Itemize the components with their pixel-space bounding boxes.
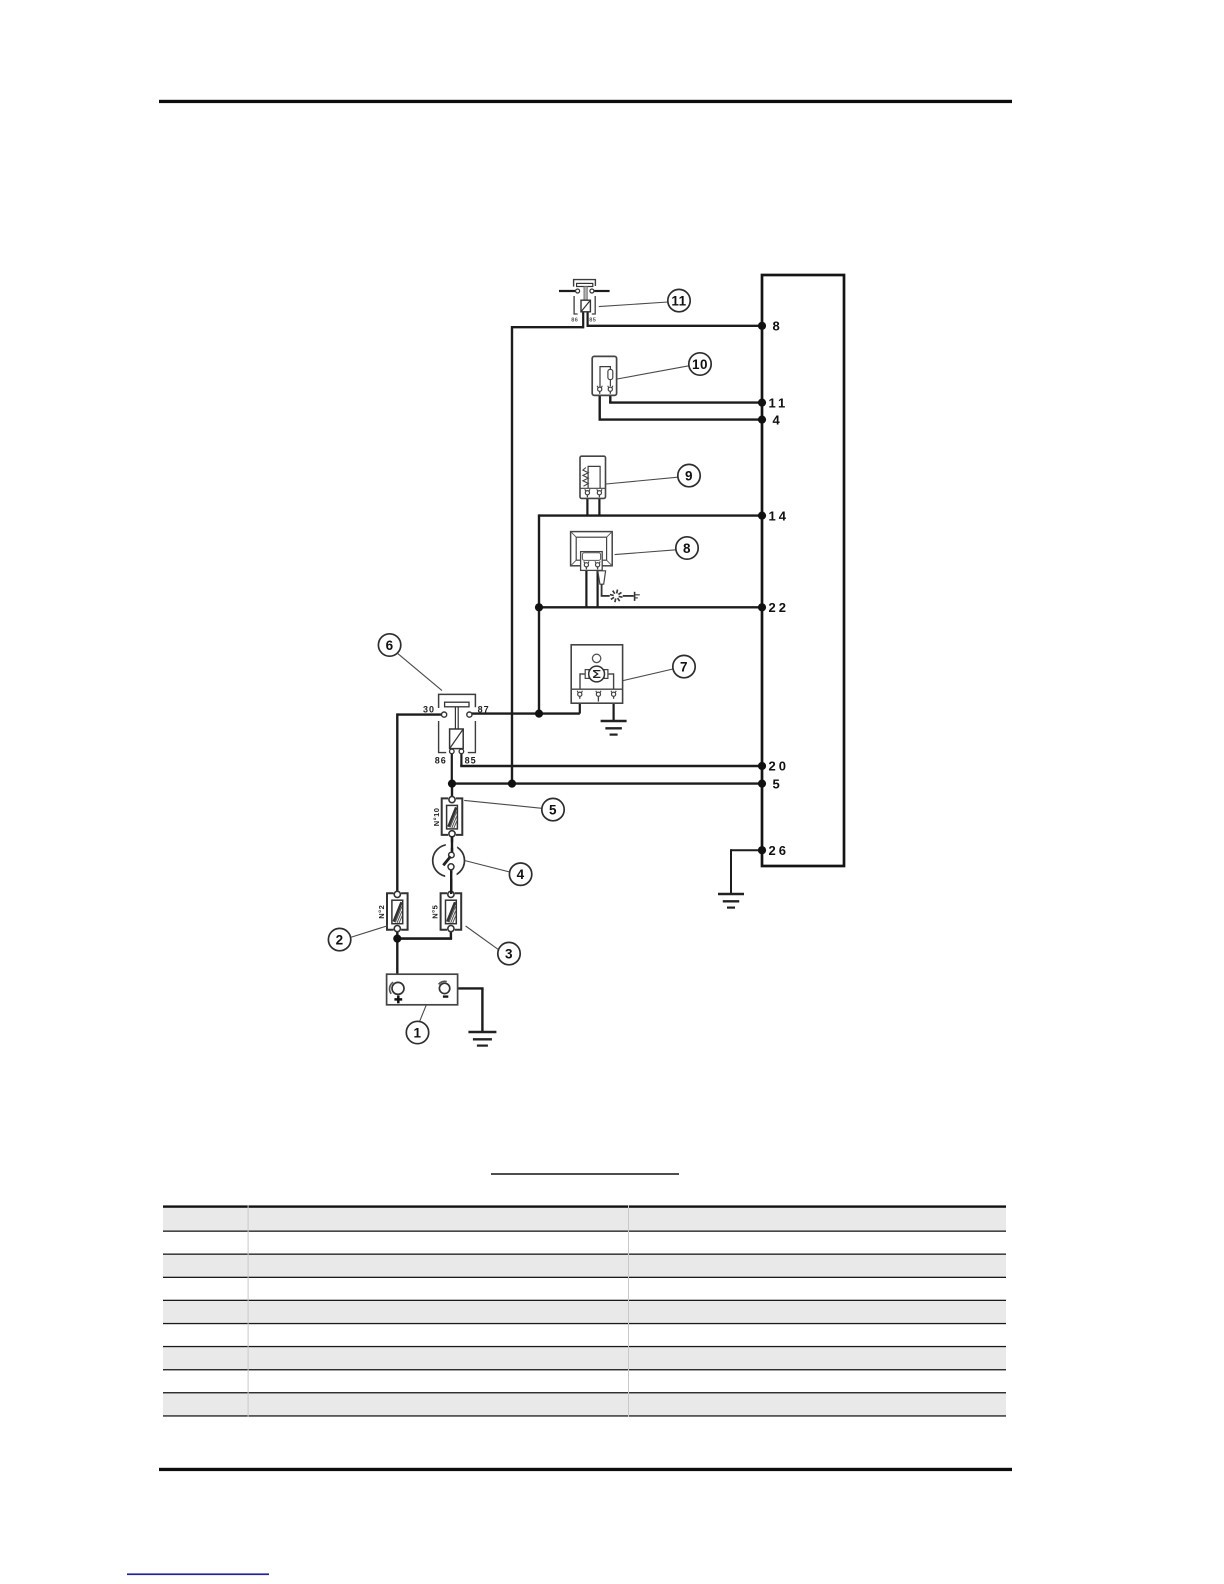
- svg-text:8: 8: [683, 541, 691, 556]
- balloon 9: [678, 464, 700, 486]
- relay 6: [423, 694, 490, 765]
- fuse 3 (N&#176;5): [441, 893, 448, 930]
- node: battery + junction: [393, 935, 401, 943]
- leader line 7: [623, 669, 673, 681]
- balloon 7: [673, 655, 695, 677]
- wire: fuse N5 bottom to junction above battery: [450, 930, 452, 939]
- table: [163, 1205, 1006, 1417]
- header rule: [159, 100, 1012, 103]
- key switch 4: [433, 836, 465, 894]
- svg-text:6: 6: [386, 638, 394, 653]
- node: bus B / 87-line junction: [535, 710, 543, 718]
- node: bus B / 22-line junction: [535, 603, 543, 611]
- svg-text:85: 85: [589, 318, 596, 324]
- wire: relay K6 86 down to 5-line: [451, 753, 453, 784]
- wire: relay K6 30 to left bus down to fuse N2: [397, 713, 441, 715]
- wire: key switch 4 to fuse N5: [450, 870, 452, 894]
- leader line 1: [420, 1005, 427, 1021]
- svg-text:N°2: N°2: [377, 905, 386, 919]
- node: ECU pin 8: [758, 322, 766, 330]
- wire: 5-line to ECU pin 5: [452, 782, 762, 784]
- node: ECU pin 14: [758, 511, 766, 519]
- caption underline: [491, 1173, 679, 1175]
- leader line 6: [398, 654, 442, 691]
- svg-text:N°10: N°10: [432, 808, 441, 827]
- ground: ECU pin 26: [718, 893, 744, 896]
- leader line 10: [617, 366, 689, 379]
- fuse 2 (N&#176;2): [387, 893, 394, 930]
- svg-text:86: 86: [571, 318, 578, 324]
- balloon 11: [668, 289, 690, 311]
- wire: ECU pin 26 to ground: [731, 849, 762, 851]
- svg-text:4: 4: [773, 412, 783, 427]
- footer rule: [159, 1468, 1012, 1471]
- leader line 8: [615, 550, 676, 555]
- leader line 3: [466, 926, 499, 949]
- wire: relay K6 85 to ECU pin 20: [460, 753, 462, 766]
- wire: relay K11 coil right to ECU pin 8: [588, 325, 762, 327]
- svg-text:9: 9: [685, 468, 693, 483]
- ground: battery negative: [468, 1031, 496, 1034]
- svg-text:26: 26: [769, 843, 789, 858]
- node: ECU pin 22: [758, 603, 766, 611]
- svg-text:N°5: N°5: [431, 905, 440, 919]
- wire: injector 9 pin stubs to 14-line: [586, 498, 588, 515]
- wire: 14-line from bus B to ECU pin 14: [539, 514, 762, 516]
- wire: vertical bus x=512 from y327 to 5-line: [511, 326, 513, 784]
- ignition coil 8: [571, 532, 613, 596]
- node: 5-line / fuse N10 junction: [448, 780, 456, 788]
- wire: component 10 left pin to ECU pin 4: [599, 395, 601, 419]
- wire: ignition coil 8 pin stubs: [585, 569, 587, 608]
- node: ECU pin 20: [758, 762, 766, 770]
- wire: vertical bus x=539 from 14-line to 87-line: [538, 514, 540, 713]
- battery 1: [387, 974, 458, 1005]
- leader line 4: [465, 861, 510, 872]
- svg-text:1: 1: [413, 1025, 421, 1040]
- svg-text:5: 5: [549, 802, 557, 817]
- wire: battery - to ground: [450, 987, 484, 989]
- wire: fuse N2 bottom to battery +: [396, 930, 398, 983]
- leader line 2: [351, 926, 388, 938]
- node: ECU pin 5: [758, 780, 766, 788]
- svg-text:87: 87: [478, 704, 490, 714]
- wire: pump left pin stub: [579, 698, 581, 714]
- wire: 5-line junction down to fuse N10: [451, 784, 453, 799]
- node: ECU pin 11: [758, 399, 766, 407]
- wire: fuse N10 to key switch 4: [451, 836, 453, 853]
- component 10 sensor: [592, 356, 616, 395]
- wire: K11 coil stubs: [582, 312, 584, 329]
- balloon 8: [676, 537, 698, 559]
- wire: relay K11 coil left to vertical bus (net to pin 5): [512, 326, 583, 328]
- balloon 10: [689, 353, 711, 375]
- svg-text:86: 86: [435, 755, 447, 765]
- spark gap symbol: [610, 590, 640, 603]
- leader line 5: [464, 800, 542, 808]
- svg-text:7: 7: [680, 659, 688, 674]
- fuel pump 7: [571, 645, 622, 703]
- svg-text:2: 2: [336, 932, 344, 947]
- wire: 22-line to ECU pin 22: [539, 606, 762, 608]
- balloon 4: [509, 863, 531, 885]
- footer link underline: [127, 1573, 269, 1575]
- svg-text:20: 20: [769, 759, 789, 774]
- svg-text:11: 11: [671, 293, 686, 308]
- svg-text:22: 22: [769, 600, 789, 615]
- svg-text:8: 8: [773, 319, 783, 334]
- relay 11: [559, 280, 610, 324]
- node: ECU pin 4: [758, 416, 766, 424]
- wire: component 10 right pin to ECU pin 11: [609, 395, 611, 402]
- svg-text:30: 30: [423, 704, 435, 714]
- fuse 5 (N&#176;10): [442, 798, 449, 835]
- balloon 3: [498, 942, 520, 964]
- svg-text:85: 85: [465, 755, 477, 765]
- svg-text:10: 10: [692, 357, 708, 372]
- balloon 6: [378, 634, 400, 656]
- balloon 2: [328, 928, 350, 950]
- ground: fuel pump: [601, 720, 627, 723]
- svg-text:11: 11: [769, 395, 789, 410]
- balloon 1: [406, 1021, 428, 1043]
- leader line 11: [599, 302, 668, 307]
- balloon 5: [542, 798, 564, 820]
- leader line 9: [606, 477, 678, 484]
- ECU connector box: [762, 275, 844, 866]
- injector 9: [580, 456, 606, 498]
- svg-text:14: 14: [769, 508, 789, 523]
- svg-text:4: 4: [517, 867, 525, 882]
- svg-text:5: 5: [773, 776, 783, 791]
- node: ECU pin 26: [758, 846, 766, 854]
- wire: relay K6 87 to fuel pump 7: [472, 712, 580, 714]
- svg-text:3: 3: [505, 946, 513, 961]
- wire: pump right pin to ground: [612, 698, 614, 721]
- node: 5-line / bus A junction: [508, 780, 516, 788]
